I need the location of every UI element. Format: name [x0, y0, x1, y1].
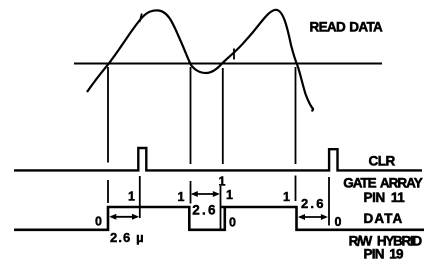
- reference line D upper (fourth zero crossing x=295.5): [295, 67, 297, 164]
- svg-text:2.6 µ: 2.6 µ: [110, 230, 145, 245]
- CLR waveform with two pulses: [14, 148, 422, 170]
- svg-text:1: 1: [178, 190, 185, 204]
- tick mark 2 on waveform: [233, 49, 235, 60]
- svg-text:0: 0: [229, 215, 236, 229]
- svg-text:1: 1: [219, 174, 226, 188]
- reference line C lower: [220, 186, 222, 231]
- svg-text:PIN 11: PIN 11: [364, 190, 406, 205]
- svg-text:2.6: 2.6: [192, 202, 218, 217]
- svg-text:PIN 19: PIN 19: [364, 246, 404, 261]
- reference line A lower: [107, 180, 109, 203]
- svg-text:1: 1: [226, 188, 233, 202]
- reference line C upper (third zero crossing x=222.8): [222, 68, 224, 164]
- svg-text:DATA: DATA: [364, 211, 404, 226]
- svg-text:2.6: 2.6: [301, 196, 326, 211]
- read data sine waveform: [87, 10, 313, 111]
- reference line B upper (second zero crossing x=190.5): [190, 67, 192, 164]
- dimension arrow 3 (right 2.6 window): [298, 214, 328, 220]
- reference line A upper (first zero crossing x=108): [107, 67, 109, 163]
- DATA waveform: [14, 207, 424, 230]
- svg-text:1: 1: [128, 190, 135, 204]
- svg-text:1: 1: [283, 190, 290, 204]
- threshold line: [74, 63, 382, 65]
- svg-text:0: 0: [95, 215, 102, 229]
- reference line under CLR pulse 1 (x=138): [139, 176, 141, 218]
- svg-text:GATE ARRAY: GATE ARRAY: [343, 176, 423, 191]
- dimension arrow 1 (2.6 u window): [109, 214, 139, 220]
- reference line B lower: [190, 181, 192, 204]
- svg-text:READ DATA: READ DATA: [310, 19, 384, 34]
- dimension arrow 2 (middle 2.6 window): [191, 191, 220, 197]
- svg-text:0: 0: [335, 215, 342, 229]
- svg-text:CLR: CLR: [369, 153, 396, 168]
- reference line under CLR pulse 2 (x=328): [328, 177, 330, 226]
- tick mark 1 on waveform: [140, 14, 142, 23]
- reference line D lower: [295, 176, 297, 202]
